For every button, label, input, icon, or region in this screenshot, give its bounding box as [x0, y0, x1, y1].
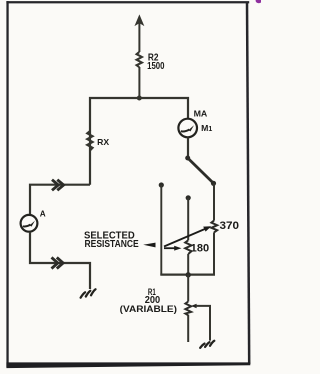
svg-text:MA: MA — [194, 108, 208, 118]
ground right — [200, 341, 214, 348]
wire R1 bottom lead (open) — [187, 315, 189, 342]
node top junction — [137, 96, 142, 101]
svg-text:180: 180 — [191, 243, 209, 255]
svg-text:1500: 1500 — [147, 61, 165, 72]
resistor R1 (variable) — [185, 302, 191, 316]
resistor 370 — [211, 221, 217, 233]
wire meter M1 to switch pole — [187, 137, 189, 158]
wire RX corner to meter A (horizontal) — [30, 185, 90, 215]
arrowhead pointing left at label — [143, 243, 155, 248]
wire branch middle lower — [187, 254, 189, 275]
resistor R2 — [137, 52, 142, 67]
label R2 1500 — [147, 52, 165, 72]
arrow to resistor 180 — [164, 246, 182, 251]
svg-text:A: A — [40, 209, 46, 218]
wire branch middle upper — [187, 198, 189, 241]
resistor 180 — [185, 240, 191, 254]
chevron connector lower — [52, 257, 64, 268]
node bottom junction — [186, 272, 191, 277]
wire top supply lead with arrowhead — [136, 16, 143, 52]
resistor RX — [87, 131, 92, 151]
wire bottom bar — [160, 274, 215, 276]
label R1 200 (VARIABLE) — [120, 287, 177, 315]
wire bottom junction to R1 — [187, 275, 189, 302]
wiper arrow of R1 — [191, 304, 197, 308]
wire top horizontal — [90, 98, 188, 185]
node switch contact left — [159, 182, 164, 187]
wire branch left vertical — [160, 185, 162, 275]
wire branch right upper — [213, 183, 215, 220]
wire branch right lower — [213, 232, 215, 274]
wire wiper to ground — [196, 306, 210, 341]
svg-text:RX: RX — [97, 137, 109, 147]
chevron connector upper — [52, 180, 64, 191]
ground left — [81, 289, 96, 297]
arrow to resistor 370 — [164, 226, 211, 246]
svg-text:(VARIABLE): (VARIABLE) — [120, 304, 177, 315]
wire R2 to top junction — [138, 67, 140, 98]
node switch pole — [185, 156, 190, 161]
node switch contact right — [211, 181, 216, 186]
meter M1 — [178, 119, 197, 138]
switch arm — [188, 158, 214, 183]
meter A — [21, 215, 38, 232]
svg-text:370: 370 — [220, 220, 240, 232]
wire meter A to lower horizontal — [30, 232, 90, 289]
svg-text:RESISTANCE: RESISTANCE — [85, 239, 140, 250]
label SELECTED RESISTANCE — [84, 231, 139, 250]
node switch contact middle — [186, 195, 191, 200]
